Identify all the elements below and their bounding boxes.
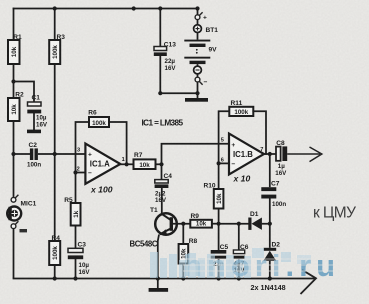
wire rail ground stem bbox=[157, 279, 159, 289]
wire C3 to rail bbox=[75, 259, 77, 278]
wire B out bbox=[264, 153, 276, 155]
node -in B node bbox=[217, 161, 221, 165]
wire R5 column bbox=[75, 173, 77, 204]
node rail-R3 bbox=[53, 6, 57, 10]
wire R2 to mic line bbox=[13, 121, 15, 154]
node C13-midrail bbox=[158, 91, 162, 95]
capacitor C3 10u/16V bbox=[68, 242, 91, 276]
wire R3R4 node to R4 bbox=[54, 154, 56, 241]
capacitor C6 4u7/16V bbox=[233, 224, 249, 279]
node A (R1/R2/C1) bbox=[11, 79, 15, 83]
wire -in to R5 node bbox=[76, 172, 86, 174]
ground under battery bbox=[185, 98, 208, 102]
wire feedback left drop bbox=[76, 122, 90, 173]
resistor R1 bbox=[8, 34, 22, 64]
wire C13 to mid rail bbox=[159, 56, 161, 93]
resistor R2 bbox=[8, 92, 24, 121]
node C6/D1 bbox=[237, 222, 241, 226]
resistor R11 bbox=[229, 100, 253, 116]
node out B bbox=[268, 152, 272, 156]
resistor R8 bbox=[179, 238, 198, 264]
node bat-midrail bbox=[195, 91, 199, 95]
node rail-R4 bbox=[53, 276, 57, 280]
wire C5 node to C6 node bbox=[219, 223, 239, 225]
wire node up to B +in bbox=[162, 144, 230, 165]
wire feedback right bbox=[109, 122, 127, 164]
node rail-C5 bbox=[217, 276, 221, 280]
wire R3 to +in line bbox=[54, 64, 56, 154]
label k CMU bbox=[313, 205, 356, 222]
ground under C1 bbox=[27, 130, 41, 134]
node rail-C3 bbox=[73, 276, 77, 280]
resistor R7 bbox=[134, 152, 156, 169]
transistor T1 BC548C bbox=[130, 207, 191, 279]
wire node A to R2 bbox=[13, 82, 15, 99]
watermark text bbox=[183, 248, 340, 283]
node rail-D2 bbox=[268, 276, 272, 280]
capacitor C1 10u/16V bbox=[27, 95, 48, 129]
node mic/R2/C2 bbox=[11, 152, 15, 156]
node base/R8 bbox=[181, 222, 185, 226]
wire R4 to rail bbox=[54, 265, 56, 279]
label IC1 = LM385 bbox=[142, 119, 184, 128]
wire bottom rail bbox=[14, 278, 316, 280]
diode D2 1N4148 bbox=[263, 224, 280, 279]
ground under rail bbox=[149, 288, 169, 292]
resistor R6 bbox=[88, 110, 109, 127]
diode D1 1N4148 bbox=[239, 211, 270, 230]
watermark skyline blocks bbox=[150, 252, 251, 278]
wire A out bbox=[120, 163, 133, 165]
wire -in B bbox=[219, 162, 229, 164]
wire R9 to C5 node bbox=[212, 223, 219, 225]
microphone MIC1 bbox=[7, 154, 36, 279]
resistor R3 bbox=[49, 34, 65, 64]
resistor R5 bbox=[64, 197, 80, 226]
node R9/R10/C5 bbox=[217, 222, 221, 226]
capacitor C7 100n bbox=[261, 154, 286, 224]
op-amp IC1.A bbox=[77, 144, 125, 195]
wire V+ rail bbox=[14, 8, 198, 10]
resistor R9 bbox=[190, 213, 212, 228]
node rail-T1e bbox=[156, 276, 160, 280]
paper noise bbox=[0, 0, 1, 1]
node bias (+in) bbox=[53, 152, 57, 156]
wire rail to C13 bbox=[159, 9, 161, 47]
node rail-mid bbox=[132, 6, 136, 10]
node -in A bbox=[73, 170, 77, 174]
node rail-battery bbox=[195, 6, 199, 10]
node rail-C6 bbox=[237, 276, 241, 280]
capacitor C8 1u/16V bbox=[275, 140, 287, 177]
node out A bbox=[125, 162, 129, 166]
label 2x 1N4148 bbox=[251, 283, 286, 292]
wire base node to R8 bbox=[182, 224, 184, 244]
wire R11 right drop bbox=[253, 111, 266, 154]
battery BT1 9V bbox=[184, 9, 218, 94]
wire R7 to node bbox=[156, 163, 162, 165]
capacitor C5 22n bbox=[211, 224, 229, 279]
wire C1 to ground bbox=[33, 113, 35, 129]
op-amp IC1.B bbox=[221, 134, 264, 184]
watermark speckle lines bbox=[183, 259, 340, 271]
node rail-R8 bbox=[181, 276, 185, 280]
wire R8 to rail bbox=[182, 264, 184, 279]
wire R1 to node A bbox=[13, 64, 15, 82]
wire node A to C1 bbox=[14, 82, 35, 103]
wire rail to R3 bbox=[54, 9, 56, 41]
capacitor C4 2u2/16V bbox=[155, 164, 173, 214]
resistor R4 bbox=[49, 235, 60, 265]
wire R11 left drop bbox=[219, 111, 230, 163]
capacitor C2 100n bbox=[14, 142, 86, 169]
capacitor C13 22u/16V bbox=[154, 42, 177, 72]
output arrow bottom (to CMU) bbox=[301, 270, 317, 294]
node rail-C13 bbox=[158, 6, 162, 10]
output arrow top (to CMU) bbox=[287, 147, 322, 162]
node D1/C7/D2 bbox=[268, 222, 272, 226]
wire battery to ground bbox=[197, 93, 199, 98]
wire mid rail bbox=[160, 92, 197, 94]
node R7/C4 node bbox=[159, 162, 163, 166]
resistor R10 bbox=[204, 182, 224, 208]
wire rail to R1 bbox=[13, 9, 15, 41]
wire R10 column bbox=[218, 163, 220, 223]
wire R5 to C3 bbox=[75, 226, 77, 249]
